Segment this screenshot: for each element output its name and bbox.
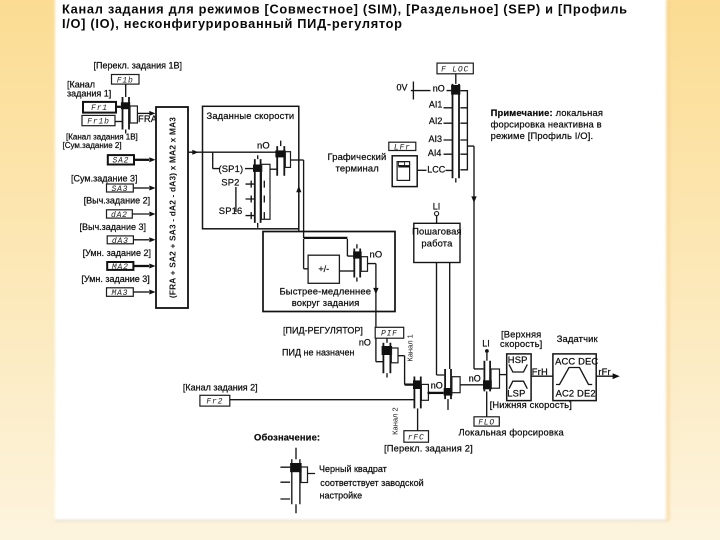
svg-text:rFC: rFC (408, 434, 425, 443)
svg-text:nO: nO (257, 140, 270, 151)
svg-text:[Сум.задание 3]: [Сум.задание 3] (71, 174, 138, 184)
svg-text:Заданные скорости: Заданные скорости (207, 110, 295, 121)
svg-text:Fr1: Fr1 (91, 104, 108, 113)
svg-text:F1b: F1b (117, 76, 134, 85)
svg-text:Графический: Графический (328, 151, 387, 162)
svg-text:Быстрее-медленнее: Быстрее-медленнее (280, 286, 372, 297)
svg-text:MA2: MA2 (112, 263, 129, 272)
svg-text:nO: nO (431, 381, 443, 391)
svg-text:[Сум.задание 2]: [Сум.задание 2] (63, 141, 122, 150)
svg-text:[ПИД-РЕГУЛЯТОР]: [ПИД-РЕГУЛЯТОР] (283, 326, 363, 336)
svg-text:Обозначение:: Обозначение: (254, 432, 320, 443)
svg-text:соответствует заводской: соответствует заводской (320, 478, 423, 488)
svg-text:nO: nO (469, 373, 481, 383)
svg-text:[Умн. задание 2]: [Умн. задание 2] (83, 248, 151, 258)
svg-text:[Перекл. задания 2]: [Перекл. задания 2] (384, 443, 473, 454)
svg-text:AI1: AI1 (429, 99, 443, 109)
svg-text:FrH: FrH (532, 366, 548, 377)
svg-text:Канал задания для режимов [Сов: Канал задания для режимов [Совместное] (… (62, 1, 628, 16)
svg-text:Канал 2: Канал 2 (391, 407, 400, 434)
svg-text:0V: 0V (397, 82, 408, 92)
svg-text:вокруг задания: вокруг задания (292, 297, 360, 308)
svg-text:скорость]: скорость] (500, 338, 542, 349)
svg-text:nO: nO (370, 248, 383, 259)
svg-text:Fr1b: Fr1b (87, 118, 109, 127)
svg-text:Примечание: локальная: Примечание: локальная (491, 107, 603, 118)
svg-text:LFr: LFr (394, 143, 411, 152)
svg-text:SP16: SP16 (219, 205, 243, 216)
svg-text:F LOC: F LOC (441, 65, 469, 74)
svg-text:dA2: dA2 (111, 211, 128, 220)
svg-text:Пошаговая: Пошаговая (412, 225, 462, 236)
svg-text:AI2: AI2 (429, 116, 443, 126)
svg-text:(FRA + SA2 + SA3 - dA2 - dA3): (FRA + SA2 + SA3 - dA2 - dA3) x MA2 x MA… (168, 117, 178, 298)
svg-text:LCC: LCC (427, 164, 446, 174)
svg-text:SA3: SA3 (111, 185, 128, 194)
svg-text:I/O] (IO), несконфигурированны: I/O] (IO), несконфигурированный ПИД-регу… (62, 16, 403, 31)
svg-text:Локальная форсировка: Локальная форсировка (459, 427, 565, 438)
svg-text:Канал 1: Канал 1 (406, 334, 415, 361)
svg-text:[Канал задания 2]: [Канал задания 2] (183, 383, 258, 393)
svg-text:ПИД не назначен: ПИД не назначен (282, 347, 354, 357)
svg-text:SP2: SP2 (221, 176, 239, 187)
svg-text:nO: nO (433, 83, 445, 93)
svg-text:настройке: настройке (320, 490, 363, 500)
svg-text:работа: работа (421, 237, 453, 248)
svg-text:ACC DEC: ACC DEC (555, 355, 598, 366)
svg-text:Черный квадрат: Черный квадрат (319, 464, 387, 474)
svg-text:PIF: PIF (381, 330, 398, 339)
svg-text:форсировка неактивна в: форсировка неактивна в (491, 119, 602, 130)
svg-text:AI3: AI3 (429, 134, 443, 144)
svg-text:LI: LI (433, 202, 441, 212)
svg-text:[Выч.задание 3]: [Выч.задание 3] (80, 222, 147, 232)
svg-text:режиме [Профиль I/O].: режиме [Профиль I/O]. (491, 130, 594, 141)
svg-text:MA3: MA3 (111, 289, 128, 298)
svg-text:rFr: rFr (598, 366, 610, 377)
svg-text:AI4: AI4 (428, 148, 442, 158)
svg-text:nO: nO (359, 338, 371, 348)
svg-text:AC2 DE2: AC2 DE2 (556, 387, 596, 398)
svg-text:SA2: SA2 (112, 157, 129, 166)
svg-text:[Перекл. задания 1B]: [Перекл. задания 1B] (94, 60, 183, 70)
svg-text:HSP: HSP (508, 354, 528, 365)
svg-text:[Умн. задание 3]: [Умн. задание 3] (81, 274, 149, 284)
svg-text:+/-: +/- (318, 264, 329, 274)
svg-text:LSP: LSP (507, 387, 525, 398)
svg-text:Задатчик: Задатчик (557, 333, 599, 344)
svg-text:терминал: терминал (336, 162, 379, 173)
svg-text:dA3: dA3 (112, 237, 129, 246)
svg-text:задания 1]: задания 1] (67, 89, 111, 99)
svg-text:FRA: FRA (138, 113, 158, 124)
svg-text:[Выч.задание 2]: [Выч.задание 2] (84, 196, 151, 206)
svg-text:Fr2: Fr2 (206, 398, 223, 407)
svg-text:(SP1): (SP1) (219, 163, 244, 174)
svg-text:LI: LI (482, 339, 490, 349)
